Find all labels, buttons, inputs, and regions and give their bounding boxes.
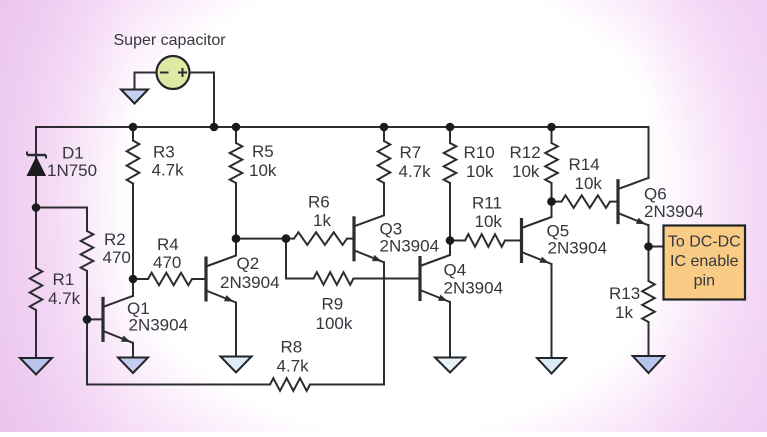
svg-text:R4: R4 xyxy=(157,235,179,254)
wire left rail (top bus to D1/R1) xyxy=(35,127,37,268)
wire R3 top lead xyxy=(132,127,134,141)
transistor Q2 2N3904 xyxy=(206,256,236,303)
resistor R1 4.7k xyxy=(30,268,43,310)
svg-text:Super capacitor: Super capacitor xyxy=(114,32,227,49)
wire Q6 emitter to output node xyxy=(648,225,650,246)
transistor Q4 2N3904 xyxy=(420,255,450,302)
ground (Q4) xyxy=(435,358,465,373)
wire Q4 collector stub xyxy=(449,241,451,256)
node dot R3/R4/Q1 collector xyxy=(129,275,138,284)
wire R10 top lead xyxy=(449,127,451,143)
resistor R13 1k xyxy=(642,281,655,322)
wire bottom bus right of R8 xyxy=(310,384,384,386)
resistor R6 1k xyxy=(294,232,347,245)
svg-text:R12: R12 xyxy=(510,143,541,162)
svg-text:10k: 10k xyxy=(466,162,494,181)
svg-text:10k: 10k xyxy=(249,161,277,180)
svg-text:To DC-DC: To DC-DC xyxy=(668,234,741,251)
svg-text:1k: 1k xyxy=(313,211,331,230)
resistor R11 10k xyxy=(465,234,505,247)
resistor R14 10k xyxy=(562,195,611,208)
wire R2 bottom to bottom bus xyxy=(87,271,270,385)
svg-text:R10: R10 xyxy=(464,143,495,162)
svg-text:4.7k: 4.7k xyxy=(152,161,185,180)
ground (R1) xyxy=(20,358,52,375)
wire R12 bottom lead to node xyxy=(551,183,553,202)
super capacitor CS xyxy=(157,56,190,89)
svg-text:10k: 10k xyxy=(475,212,503,231)
wire R7 top lead xyxy=(383,127,385,141)
svg-text:R13: R13 xyxy=(609,284,640,303)
resistor R3 4.7k xyxy=(127,141,140,184)
transistor Q1 2N3904 xyxy=(103,296,133,343)
wire top supply bus xyxy=(36,126,649,128)
resistor R2 470 xyxy=(81,231,94,271)
wire R6 left lead xyxy=(286,238,294,240)
wire R5 top lead xyxy=(235,127,237,143)
wire R5 bottom lead to node xyxy=(235,183,237,239)
svg-text:1k: 1k xyxy=(615,303,633,322)
wire supercap positive to top bus xyxy=(190,73,215,128)
svg-text:Q4: Q4 xyxy=(444,261,467,280)
svg-text:2N3904: 2N3904 xyxy=(129,316,189,335)
wire node C down to R9 xyxy=(285,239,287,279)
svg-text:1N750: 1N750 xyxy=(47,161,97,180)
svg-text:470: 470 xyxy=(103,248,131,267)
resistor R5 10k xyxy=(230,143,243,183)
output box To DC-DC IC enable pin xyxy=(664,226,746,300)
ground (super capacitor) xyxy=(121,90,148,104)
svg-text:R14: R14 xyxy=(569,155,600,174)
wire R14 left lead xyxy=(552,201,562,203)
node dot R12/R14/Q5 collector xyxy=(547,197,556,206)
svg-text:IC enable: IC enable xyxy=(670,253,739,270)
wire Q1 base xyxy=(87,318,103,320)
node dot R10/R11/Q4 collector xyxy=(446,236,455,245)
svg-text:2N3904: 2N3904 xyxy=(444,279,504,298)
svg-text:Q2: Q2 xyxy=(237,254,260,273)
svg-text:pin: pin xyxy=(694,273,715,290)
wire R4 left lead xyxy=(133,278,148,280)
diode D1 1N750 zener xyxy=(27,152,46,176)
wire node A branch to R2 xyxy=(36,208,87,232)
node dot D1/R1/R2 (node A) xyxy=(32,203,41,212)
wire R4 right lead to Q2 base xyxy=(192,278,206,280)
wire supercap negative to ground xyxy=(135,73,157,90)
svg-text:4.7k: 4.7k xyxy=(48,289,81,308)
resistor R7 4.7k xyxy=(378,141,391,183)
wire Q3 emitter rail xyxy=(383,262,385,384)
node dot bus/R10 xyxy=(446,123,455,132)
transistor Q6 2N3904 xyxy=(618,178,648,225)
svg-text:100k: 100k xyxy=(316,314,353,333)
node dot R5/Q2 collector (node B) xyxy=(232,234,241,243)
node dot bus/R5 xyxy=(232,123,241,132)
svg-text:R8: R8 xyxy=(281,338,303,357)
wire R13 bottom lead to ground xyxy=(648,322,650,356)
resistor R8 4.7k xyxy=(270,378,310,391)
svg-text:10k: 10k xyxy=(575,174,603,193)
svg-text:470: 470 xyxy=(153,253,181,272)
ground (Q2) xyxy=(221,357,252,373)
wire R9 left lead xyxy=(286,278,314,280)
svg-text:2N3904: 2N3904 xyxy=(644,202,704,221)
svg-text:4.7k: 4.7k xyxy=(399,162,432,181)
wire R11 left lead xyxy=(450,240,465,242)
wire R7 bottom lead to Q3 collector xyxy=(383,183,385,215)
svg-text:R7: R7 xyxy=(400,143,422,162)
wire node B to node C xyxy=(236,238,286,240)
resistor R9 100k xyxy=(314,272,354,285)
wire R10 bottom lead to node xyxy=(449,183,451,241)
wire R9 right lead to Q4 base xyxy=(354,278,421,280)
wire Q2 collector stub xyxy=(235,239,237,256)
svg-text:2N3904: 2N3904 xyxy=(220,273,280,292)
node dot bus/R7 xyxy=(380,123,389,132)
wire Q4 emitter to ground xyxy=(449,302,451,358)
node dot bus/R12 xyxy=(547,123,556,132)
node dot Q1 base/R2 xyxy=(83,315,92,324)
svg-text:R11: R11 xyxy=(472,194,502,213)
svg-text:R3: R3 xyxy=(153,143,175,162)
wire Q2 emitter to ground xyxy=(235,303,237,357)
transistor Q3 2N3904 xyxy=(354,215,384,262)
wire output node to enable box xyxy=(649,246,664,248)
wire Q5 emitter to ground xyxy=(551,264,553,358)
svg-text:2N3904: 2N3904 xyxy=(380,237,440,256)
ground (Q1) xyxy=(118,358,148,374)
svg-text:R9: R9 xyxy=(322,295,344,314)
resistor R10 10k xyxy=(444,143,457,183)
svg-text:Q6: Q6 xyxy=(644,185,667,204)
svg-text:D1: D1 xyxy=(62,144,84,163)
ground (R13) xyxy=(633,356,665,373)
svg-text:10k: 10k xyxy=(512,162,540,181)
resistor R4 470 xyxy=(148,273,192,286)
wire R3 bottom lead to node xyxy=(132,184,134,280)
node dot bus/supercap xyxy=(210,123,219,132)
node dot bus/R3 xyxy=(129,123,138,132)
node dot Q6 emitter/R13/output xyxy=(644,242,653,251)
resistor R12 10k xyxy=(545,143,558,183)
wire R13 top lead xyxy=(648,247,650,282)
wire R11 right lead to Q5 base xyxy=(505,240,522,242)
svg-text:R6: R6 xyxy=(308,193,330,212)
wire right rail to Q6 collector xyxy=(648,127,650,178)
node dot R6/R9 (node C) xyxy=(282,234,291,243)
wire R6 right lead to Q3 base xyxy=(347,238,354,240)
transistor Q5 2N3904 xyxy=(522,217,552,264)
svg-text:R1: R1 xyxy=(53,270,75,289)
wire Q1 collector stub xyxy=(132,279,134,296)
svg-text:R5: R5 xyxy=(252,142,274,161)
wire Q5 collector stub xyxy=(551,202,553,217)
wire left rail below R1 xyxy=(35,310,37,358)
wire Q1 emitter to ground xyxy=(132,343,134,358)
svg-text:2N3904: 2N3904 xyxy=(548,239,608,258)
wire R12 top lead xyxy=(551,127,553,143)
svg-text:4.7k: 4.7k xyxy=(277,357,310,376)
ground (Q5) xyxy=(537,358,566,374)
wire R14 right lead to Q6 base xyxy=(610,201,618,203)
svg-text:R2: R2 xyxy=(104,230,126,249)
